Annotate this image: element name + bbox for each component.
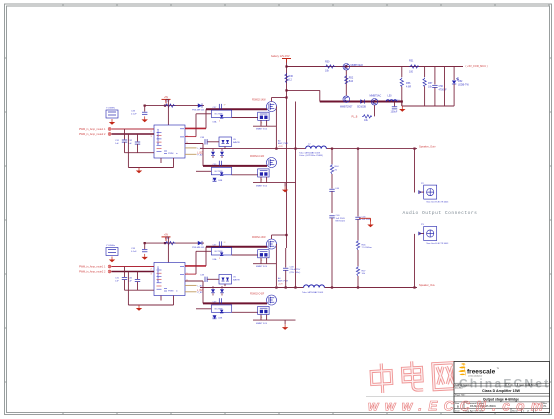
svg-text:Toko #A7503AY-100K: Toko #A7503AY-100K [302, 291, 324, 294]
wire ch2 pin mid h [185, 273, 196, 275]
connector P2 speaker+ [419, 183, 449, 204]
transistor ch2 Q1 package [256, 250, 269, 268]
svg-text:FDMS2-1KW: FDMS2-1KW [252, 237, 266, 239]
capacitor ch1 C38 [200, 137, 207, 145]
transistor Q51 [340, 96, 353, 109]
wire ch1 hi src bus [253, 125, 276, 127]
ground ch1 U8 [111, 119, 113, 122]
wire ch2 U5 down [224, 284, 226, 286]
wire +12V feed vertical [295, 102, 297, 288]
svg-text:(25V 105c): (25V 105c) [290, 272, 301, 274]
wire ch2 gnd loop bottom [128, 304, 173, 306]
svg-text:2: 2 [219, 258, 220, 260]
svg-text:U3A: U3A [213, 121, 218, 124]
node ch1 out labels [278, 140, 289, 148]
op-amp ch2 U4A driver [211, 305, 231, 319]
svg-text:R57: R57 [428, 82, 433, 85]
diode ch2 snub a [211, 286, 215, 295]
capacitor ch2 C31 [115, 267, 127, 291]
wire ch2 cap gnd row [125, 289, 155, 291]
resistor R44 [330, 149, 339, 174]
svg-text:Speaker_Out+: Speaker_Out+ [419, 144, 436, 148]
wire ch1 pin tan1 [185, 147, 197, 149]
svg-text:MC33SB0410: MC33SB0410 [156, 128, 160, 145]
wire ch2 +5V to IC [167, 237, 169, 263]
wire ch1 hi drain [271, 98, 273, 102]
ground ch2 C33 [144, 254, 146, 257]
wire ch1 gate1 thick [206, 108, 267, 110]
wire ch2 pin gate1 h [185, 265, 206, 267]
svg-text:R51: R51 [409, 60, 414, 63]
svg-text:+12V: +12V [278, 283, 283, 285]
title block [454, 362, 550, 413]
wire ch1 U5 down [224, 147, 226, 149]
node ch2 pin numbers [151, 266, 189, 282]
wire ch1 gate2 thick [203, 165, 267, 167]
svg-text:D52: D52 [458, 80, 463, 83]
diode ch1 PWRGD [192, 103, 205, 111]
capacitor ch2 C32 [128, 272, 140, 291]
wire ch2 gnd drop [284, 320, 286, 324]
wire ch2 lo src b [266, 315, 268, 321]
capacitor C40 [329, 215, 345, 288]
wire ch2 gate2 thick [203, 302, 267, 304]
wire ch1 pin gate2 h [185, 143, 203, 145]
svg-text:R50: R50 [325, 61, 330, 64]
svg-text:+12V: +12V [278, 146, 283, 148]
svg-text:PWM_in_Amp_mute2 2: PWM_in_Amp_mute2 2 [79, 133, 106, 136]
node junction dots [144, 65, 416, 288]
wire ch1 +5V bar link [166, 98, 168, 100]
wire ch2 hi src stub a [260, 258, 262, 264]
wire ch1 gnd loop up [173, 158, 175, 168]
svg-text:+12V: +12V [395, 100, 401, 102]
svg-text:FDMS2-1KW: FDMS2-1KW [252, 99, 266, 101]
diode ch2 U5 dual [208, 275, 241, 285]
ground power section [401, 106, 403, 109]
wire ch2 ic bottom stub [160, 296, 162, 301]
ground ch2 source [284, 324, 286, 327]
transistor ch1 Q1 package [256, 112, 269, 130]
svg-text:BAV99: BAV99 [233, 278, 240, 281]
svg-text:( +5V_FOR_MCU ): ( +5V_FOR_MCU ) [466, 64, 488, 68]
capacitor ch1 C33 [131, 106, 147, 116]
svg-text:4.6R: 4.6R [406, 86, 411, 89]
resistor ch2 R30 [165, 237, 176, 245]
svg-text:1uF: 1uF [115, 143, 119, 145]
wire ch2 PWRGD row [143, 242, 204, 244]
capacitor C56 [432, 67, 447, 107]
resistor ch1 R30 [165, 100, 176, 108]
wire ch2 mid rail [275, 244, 277, 286]
svg-text:LEDB-TW: LEDB-TW [458, 84, 470, 87]
power flag ch1 +5V [162, 98, 171, 100]
transistor ch2 Q2 low FET [267, 295, 277, 305]
wire OUT2 rail right [325, 287, 418, 289]
node ch1 pin numbers [151, 128, 189, 144]
op-amp ch1 U1 gate driver IC [154, 125, 185, 158]
svg-text:U3A: U3A [213, 258, 218, 261]
svg-text:PWM_in_Amp_mute1 1: PWM_in_Amp_mute1 1 [79, 266, 106, 269]
wire ch1 cap gnd row [125, 152, 155, 154]
wire ch1 pin gate1 v [205, 109, 207, 128]
capacitor C44 [329, 174, 339, 213]
node ch1 input port 2 [108, 133, 111, 136]
wire ch1 driver1 out [232, 117, 258, 119]
wire ch2 src row [253, 319, 296, 321]
wire ch2 driver2 in [196, 308, 211, 310]
capacitor ch2 C38 [200, 274, 207, 282]
node ch2 out labels [278, 277, 289, 285]
capacitor C46 [355, 149, 371, 240]
LED D52 [452, 67, 470, 107]
wire ch2 hi src bus [253, 263, 276, 265]
capacitor ch1 C37 [213, 104, 227, 109]
resistor R36 battery leg [285, 73, 294, 83]
wire ch1 pin mid v [195, 114, 197, 137]
wire ch2 lo src a [260, 315, 262, 321]
diode ch1 snub b [220, 149, 224, 158]
svg-text:Audio Output Connectors: Audio Output Connectors [403, 210, 478, 216]
wire ch2 hi src stub b [266, 258, 268, 264]
svg-text:MMBT5AC: MMBT5AC [370, 94, 382, 97]
inductor L3 [302, 285, 324, 294]
wire ch1 input1 [112, 128, 155, 130]
svg-text:+5V: +5V [164, 96, 169, 99]
wire top +12V rail [287, 66, 464, 68]
wire ch1 driver2 in [196, 170, 211, 172]
wire ch2 pin gate2 h [185, 280, 203, 282]
svg-text:1uF: 1uF [115, 280, 119, 282]
svg-text:Y1 6MHz: Y1 6MHz [106, 108, 115, 110]
node battery red stub [286, 59, 288, 63]
svg-text:MMBT 5C6: MMBT 5C6 [256, 185, 268, 187]
svg-text:0.1uF: 0.1uF [131, 251, 137, 253]
wire ch1 mid rail [275, 107, 277, 149]
svg-text:BAV99: BAV99 [233, 141, 240, 144]
power flag battery 12V-15V [271, 54, 291, 58]
diode ch2 snub b [220, 286, 224, 295]
capacitor ch1 C31 [115, 129, 127, 153]
connector P3 speaker- [419, 224, 449, 245]
svg-text:MMBT 5C6: MMBT 5C6 [256, 323, 268, 325]
wire rail end stub [454, 66, 463, 68]
wire OUT1 rail right [327, 148, 418, 150]
wire ch1 +5V to IC [167, 99, 169, 125]
svg-text:2: 2 [219, 121, 220, 123]
wire ch1 hi drain tap [272, 97, 287, 99]
wire ch2 gnd loop vert [127, 272, 129, 306]
svg-text:freescale: freescale [467, 369, 496, 376]
svg-text:MMBT 5C6: MMBT 5C6 [256, 266, 268, 268]
svg-text:C56: C56 [439, 85, 444, 88]
svg-text:™: ™ [497, 368, 500, 371]
svg-text:F_B2: F_B2 [198, 154, 204, 156]
wire ch2 hi drain [271, 235, 273, 239]
svg-text:PWLMR 001: PWLMR 001 [192, 110, 205, 112]
wire ch2 pin tan2 [185, 291, 197, 293]
svg-text:7.5 200hm: 7.5 200hm [362, 247, 373, 249]
wire ch2 pin tan1 [185, 284, 197, 286]
svg-text:SD103B: SD103B [357, 106, 366, 109]
wire ch1 hi src stub b [266, 120, 268, 126]
ground ch1 IC [138, 168, 140, 171]
wire ch1 driver2 out [232, 174, 258, 176]
watermark zhong dian wang [371, 359, 455, 393]
capacitor C48 [283, 248, 301, 288]
resistor R53 [352, 115, 373, 122]
wire column R56 [401, 102, 403, 107]
wire ch2 pin mid v [195, 251, 197, 274]
svg-text:Cage Code: Cage Code [519, 384, 531, 386]
transistor Q50 [343, 64, 364, 71]
wire ch2 driver1 out [232, 254, 258, 256]
ground ch2 IC [138, 305, 140, 308]
svg-text:0.1uF: 0.1uF [131, 113, 137, 115]
svg-text:ICAP/4 Systems: ICAP/4 Systems [455, 383, 472, 386]
svg-text:PWM: PWM [168, 153, 174, 155]
svg-text:1uF 250V: 1uF 250V [336, 218, 346, 220]
diode ch2 PWRGD [192, 241, 205, 249]
svg-text:L_BZ: L_BZ [197, 152, 203, 154]
wire ch2 hi drain tap [272, 234, 287, 236]
wire ch1 gnd loop vert [127, 134, 129, 168]
op-amp ch2 U3A driver [211, 248, 231, 262]
resistor R52 [345, 75, 354, 84]
svg-text:FDMS2-C42F: FDMS2-C42F [250, 294, 265, 296]
wire ch1 lo src a [260, 177, 262, 183]
diode ch1 snub a [211, 149, 215, 158]
capacitor ch1 C39 [213, 161, 222, 166]
svg-text:100: 100 [409, 71, 414, 74]
svg-text:Speaker_Out-: Speaker_Out- [419, 283, 435, 287]
svg-text:PWM_in_Amp_mute2 2: PWM_in_Amp_mute2 2 [79, 271, 106, 274]
wire Q52 base leg [374, 105, 376, 116]
wire ch2 input1 [112, 266, 155, 268]
wire ch2 driver1 in [196, 250, 211, 252]
svg-text:PL_B: PL_B [352, 115, 358, 118]
diode ch1 U5 dual [208, 137, 241, 147]
node ch2 input port 1 [108, 265, 111, 268]
svg-text:+5V: +5V [164, 234, 169, 237]
resistor R50 [325, 61, 336, 73]
wire ch2 input2 [112, 271, 155, 273]
wire ch2 pin gate1 v [205, 247, 207, 266]
svg-text:4700uF: 4700uF [439, 89, 448, 92]
wire ch1 PWRGD row [143, 105, 204, 107]
transistor ch1 Q2 low FET [267, 158, 277, 168]
op-amp ch1 U4A driver [211, 167, 231, 181]
svg-text:MC33SB0410: MC33SB0410 [156, 266, 160, 283]
svg-text:Color: (07/15Ww OVER): Color: (07/15Ww OVER) [299, 154, 323, 157]
resistor R56 [400, 67, 411, 107]
svg-text:Doc/No:: Doc/No: [455, 387, 463, 389]
svg-text:MKT1822: MKT1822 [336, 221, 346, 223]
svg-text:100uF: 100uF [391, 110, 398, 113]
svg-text:Class D Amplifier 15W: Class D Amplifier 15W [482, 389, 521, 393]
svg-text:www.ECCN.com: www.ECCN.com [368, 399, 549, 414]
transistor ch1 Q1 high FET [267, 102, 277, 112]
wire power bottom rail [402, 105, 454, 107]
wire ch1 lo src b [266, 177, 268, 183]
wire ch1 ic bottom stub [160, 158, 162, 163]
inductor L50 [386, 94, 397, 101]
svg-text:R56: R56 [406, 82, 411, 85]
wire OUT2 rail left [200, 287, 304, 289]
capacitor ch1 C32 [128, 134, 140, 153]
wire battery vertical rail [286, 59, 288, 249]
resistor R46 [356, 240, 372, 266]
svg-text:AMP_PWR: AMP_PWR [278, 280, 289, 283]
wire ch1 input2 [112, 133, 155, 135]
wire OUT1 rail left [200, 148, 306, 150]
svg-text:PWM: PWM [168, 291, 174, 293]
node ch1 input port 1 [108, 128, 111, 131]
wire battery step horizontal [287, 89, 320, 91]
svg-text:PWLMR 001: PWLMR 001 [192, 247, 205, 249]
capacitor ch2 C37 [213, 241, 227, 246]
wire ch1 pin gate2 v [202, 144, 204, 166]
resistor R47 [356, 266, 366, 288]
capacitor C55 [391, 102, 398, 114]
svg-text:MMBT 5C6: MMBT 5C6 [256, 129, 268, 131]
transistor ch2 Q2 package [256, 306, 269, 324]
node ch2 input port 2 [108, 270, 111, 273]
wire regulator thick rail [320, 101, 402, 103]
svg-text:AMP_PWR: AMP_PWR [278, 142, 289, 145]
wire ch1 pin mid h [185, 136, 196, 138]
svg-text:B10: B10 [349, 80, 354, 83]
svg-text:Page Title:: Page Title: [455, 394, 466, 397]
wire ch2 gnd loop up [173, 296, 175, 306]
wire ch1 pin gate1 h [185, 127, 206, 129]
wire ch2 gate1 thick [206, 246, 267, 248]
component ch2 U8 cluster [106, 245, 118, 255]
wire ch1 hi src stub a [260, 120, 262, 126]
ground ch1 C33 [144, 116, 146, 119]
svg-text:PWM_in_Amp_mute1 1: PWM_in_Amp_mute1 1 [79, 128, 106, 131]
op-amp ch2 U1 gate driver IC [154, 263, 185, 296]
svg-text:U4B: U4B [218, 180, 223, 182]
ground ch2 U8 [111, 257, 113, 260]
svg-text:U4B: U4B [218, 318, 223, 320]
diode ch1 U4B [213, 178, 223, 182]
inductor L2 [299, 144, 326, 155]
ground filter [359, 218, 374, 227]
svg-text:F-04: F-04 [508, 384, 513, 386]
wire battery step vertical [319, 90, 321, 101]
svg-text:220uF/25V: 220uF/25V [290, 269, 301, 271]
svg-text:FDMS2-C42F: FDMS2-C42F [250, 156, 265, 158]
wire column plain [444, 67, 446, 107]
svg-text:Rev P1: Rev P1 [531, 384, 539, 386]
wire Q50 emitter [345, 70, 347, 95]
svg-text:MMBT2222: MMBT2222 [351, 64, 364, 67]
capacitor ch2 C33 [131, 243, 147, 253]
power flag ch2 +5V [162, 236, 171, 238]
wire ch1 src row [253, 182, 296, 184]
wire ch1 gnd drop [284, 183, 286, 187]
svg-text:F_B2: F_B2 [198, 292, 204, 294]
svg-text:1uF 250V: 1uF 250V [362, 219, 372, 221]
wire ch1 pin tan2 [185, 153, 197, 155]
svg-text:R52: R52 [349, 77, 354, 80]
capacitor ch2 C39 [213, 298, 222, 303]
transistor ch1 Q2 package [256, 169, 269, 187]
svg-text:L_BZ: L_BZ [197, 290, 203, 292]
resistor R57 [423, 67, 433, 107]
diode ch2 U4B [213, 315, 223, 319]
component ch1 U8 cluster [106, 108, 118, 118]
transistor ch2 Q1 high FET [267, 239, 277, 249]
diode D50 [357, 99, 366, 108]
wire ch2 +5V bar link [166, 236, 168, 238]
svg-text:New Gen ELECTR 4643: New Gen ELECTR 4643 [427, 243, 450, 245]
svg-text:MMBT2907: MMBT2907 [340, 106, 353, 109]
wire P2 stub [414, 149, 416, 193]
wire P3 stub [414, 234, 416, 288]
wire ch1 driver1 in [196, 113, 211, 115]
svg-text:New Gen ELECTR 4643: New Gen ELECTR 4643 [427, 201, 450, 203]
op-amp ch1 U3A driver [211, 110, 231, 124]
transistor Q52 regulator [370, 94, 382, 105]
wire ch2 pin gate2 v [202, 281, 204, 303]
wire ch1 gnd loop bottom [128, 167, 173, 169]
wire ch2 driver2 out [232, 311, 258, 313]
svg-text:battery 12V-15V: battery 12V-15V [271, 54, 290, 58]
ground ch1 source [284, 187, 286, 190]
svg-text:L50: L50 [388, 94, 393, 97]
svg-text:Y1 6MHz: Y1 6MHz [106, 245, 115, 247]
resistor R51 [409, 60, 419, 74]
